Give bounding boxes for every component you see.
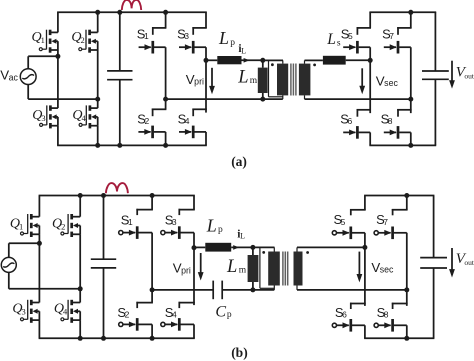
svg-text:(a): (a) <box>231 154 247 169</box>
svg-text:(b): (b) <box>231 345 248 360</box>
